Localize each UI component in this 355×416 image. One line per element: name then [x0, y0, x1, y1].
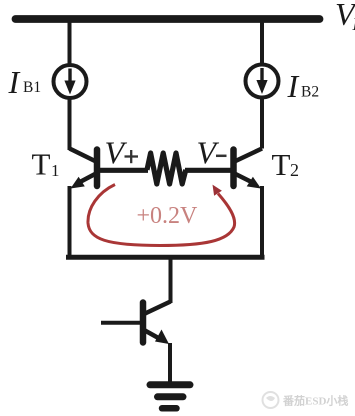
wire rail to IB2	[260, 19, 264, 64]
label T2	[272, 147, 300, 182]
wire T1 base to resistor	[100, 168, 148, 173]
svg-text:T: T	[272, 147, 291, 182]
svg-text:1: 1	[51, 161, 60, 180]
node label V+	[105, 135, 139, 171]
svg-text:T: T	[32, 147, 51, 182]
Q3 base stub	[101, 321, 140, 325]
annotation red arrow +0.2V loop	[88, 185, 235, 246]
svg-text:V: V	[105, 135, 128, 171]
wire tail junction to Q3 collector	[169, 257, 173, 303]
transistor T2	[234, 149, 263, 189]
svg-text:D: D	[352, 14, 355, 34]
label IB1	[8, 64, 42, 100]
svg-text:番茄ESD小栈: 番茄ESD小栈	[282, 394, 348, 408]
wire rail to IB1	[68, 19, 72, 64]
svg-text:V: V	[197, 135, 220, 171]
node label V-	[197, 135, 227, 171]
current source IB2	[246, 65, 279, 98]
wire Q3 emitter to ground	[168, 343, 172, 383]
svg-text:B2: B2	[301, 84, 319, 101]
wire resistor to T2 base	[185, 168, 231, 173]
svg-text:I: I	[8, 64, 21, 100]
watermark text	[282, 394, 348, 408]
wire T2 emitter to tail	[260, 186, 264, 259]
svg-text:2: 2	[290, 160, 299, 180]
resistor R1	[147, 153, 186, 184]
ground	[150, 385, 190, 409]
annotation text +0.2V	[137, 203, 199, 229]
wire T2 collector to IB2	[260, 99, 264, 149]
svg-text:+0.2V: +0.2V	[137, 203, 199, 229]
svg-text:B1: B1	[23, 79, 41, 96]
power rail V	[16, 15, 320, 23]
current source IB1	[54, 65, 87, 98]
label IB2	[287, 68, 320, 104]
transistor Q3	[143, 302, 171, 345]
net label V	[335, 0, 355, 34]
label T1	[32, 147, 60, 182]
watermark logo	[263, 392, 279, 408]
wire T1 emitter to tail	[68, 186, 72, 259]
tail bus wire	[66, 255, 265, 260]
transistor T1	[70, 149, 98, 189]
wire IB1 to T1 collector	[68, 98, 72, 150]
svg-text:I: I	[287, 68, 300, 104]
